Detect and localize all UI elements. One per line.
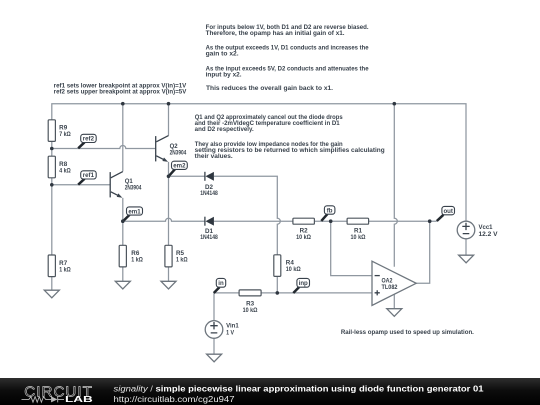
node: rail / Q2 collector xyxy=(167,102,171,106)
wire: ref1 net (R8 bottom to Q1 base and down to R7) xyxy=(52,178,110,255)
svg-text:Vcc1: Vcc1 xyxy=(479,225,494,231)
resistor R9 xyxy=(48,120,71,142)
annotation: reduces overall gain note xyxy=(206,86,333,92)
svg-text:2N3904: 2N3904 xyxy=(170,150,187,156)
svg-text:2N3904: 2N3904 xyxy=(125,185,142,191)
svg-text:7 kΩ: 7 kΩ xyxy=(59,132,71,138)
resistor R1 xyxy=(347,218,369,241)
svg-text:ref1: ref1 xyxy=(83,172,95,179)
wire: R4 bottom to inp net xyxy=(276,276,278,293)
wire: D2 anode to R4 (vertical hop over em1 wire) xyxy=(214,176,280,255)
wire: op-amp V+ supply from top rail (hop over out wire) xyxy=(394,104,397,267)
wire: ref2 net (R9-R8 junction to Q2 base, hop over Q1 collector) xyxy=(52,141,156,156)
svg-text:Q1 and Q2 approximately cancel: Q1 and Q2 approximately cancel out the d… xyxy=(195,115,344,121)
node ref2 flag xyxy=(78,134,96,148)
svg-text:setting resistors to be return: setting resistors to be returned to whic… xyxy=(195,148,385,154)
svg-text:gain to x2.: gain to x2. xyxy=(206,51,239,57)
wire: R6 ground stem xyxy=(122,267,124,281)
node inp flag xyxy=(293,278,309,293)
svg-text:ref2 sets upper breakpoint at: ref2 sets upper breakpoint at approx V(i… xyxy=(54,90,187,96)
wire: R2 to R1 through fb xyxy=(314,220,347,222)
node out flag xyxy=(437,206,455,221)
svg-text:signality / simple piecewise l: signality / simple piecewise linear appr… xyxy=(114,385,485,394)
svg-text:1 V: 1 V xyxy=(226,331,234,337)
svg-text:1 kΩ: 1 kΩ xyxy=(131,257,143,263)
svg-text:10 kΩ: 10 kΩ xyxy=(351,235,366,241)
node: out junction xyxy=(428,219,432,223)
svg-text:in: in xyxy=(218,280,224,287)
svg-text:D1: D1 xyxy=(205,229,214,235)
svg-text:out: out xyxy=(443,208,452,215)
svg-text:fb: fb xyxy=(327,207,333,214)
svg-text:1 kΩ: 1 kΩ xyxy=(59,268,71,274)
svg-text:R2: R2 xyxy=(300,229,309,235)
svg-text:http://circuitlab.com/cg2u947: http://circuitlab.com/cg2u947 xyxy=(114,395,235,404)
ground (R7) xyxy=(44,290,59,298)
wire: em2 down to R5 xyxy=(168,176,170,245)
svg-text:Q2: Q2 xyxy=(170,144,179,150)
svg-text:R9: R9 xyxy=(59,126,68,132)
svg-text:OA2: OA2 xyxy=(382,278,394,284)
resistor R3 xyxy=(239,290,261,314)
svg-text:Therefore, the opamp has an in: Therefore, the opamp has an initial gain… xyxy=(206,31,345,37)
resistor R7 xyxy=(48,255,71,277)
wire: D1 anode to R2 xyxy=(214,220,293,222)
annotation: output exceeds 1V note xyxy=(206,45,370,57)
svg-text:As the output exceeds 1V, D1 c: As the output exceeds 1V, D1 conducts an… xyxy=(206,45,370,51)
op-amp OA2 xyxy=(372,261,416,305)
node: em2 junction xyxy=(167,175,171,179)
wire: fb net down to op-amp inverting input xyxy=(331,221,372,275)
ground (op-amp V-) xyxy=(387,309,402,317)
node: rail / Q1 collector xyxy=(121,102,125,106)
wire: op-amp output to out node xyxy=(416,221,430,283)
svg-text:ref2: ref2 xyxy=(83,136,95,143)
svg-text:R4: R4 xyxy=(286,261,295,267)
CircuitLab logo squiggle resistor+diode xyxy=(22,396,65,402)
footer bar xyxy=(0,378,540,405)
svg-text:4 kΩ: 4 kΩ xyxy=(59,169,71,175)
resistor R5 xyxy=(165,245,188,267)
wire: R7 ground stem xyxy=(51,277,53,291)
svg-text:their values.: their values. xyxy=(195,154,233,160)
node fb flag xyxy=(321,206,335,221)
svg-text:em1: em1 xyxy=(128,208,141,215)
svg-text:1N4148: 1N4148 xyxy=(200,235,218,241)
svg-text:They also provide low impedanc: They also provide low impedance nodes fo… xyxy=(195,142,343,148)
svg-text:and their -2mVIdegC temperatur: and their -2mVIdegC temperature coeffici… xyxy=(195,121,341,127)
resistor R8 xyxy=(48,156,71,178)
svg-text:12.2 V: 12.2 V xyxy=(479,232,498,238)
node: fb junction xyxy=(329,219,333,223)
voltage source Vin1 xyxy=(205,321,239,339)
transistor Q1 xyxy=(110,172,142,198)
svg-text:Rail-less opamp used to speed: Rail-less opamp used to speed up simulat… xyxy=(341,330,474,336)
annotation: ref1/ref2 breakpoints note xyxy=(54,84,187,96)
wire: em1 net to R6 and to D1 (hop over R5 branch) xyxy=(123,218,205,245)
svg-text:As the input exceeds 5V, D2 co: As the input exceeds 5V, D2 conducts and… xyxy=(206,66,370,72)
diode D1 xyxy=(200,217,218,242)
wire: Q1 emitter down to em1 xyxy=(122,198,124,221)
svg-text:input by x2.: input by x2. xyxy=(206,72,242,78)
annotation: rail-less opamp note xyxy=(341,330,474,336)
annotation: low impedance nodes note xyxy=(195,142,385,160)
node: ref1 junction xyxy=(50,183,54,187)
ground (Vin1) xyxy=(207,354,222,362)
svg-text:Q1: Q1 xyxy=(125,179,134,185)
diode D2 xyxy=(200,172,218,197)
node: inp junction xyxy=(276,291,280,295)
svg-text:D2: D2 xyxy=(205,185,214,191)
svg-text:and D2 respectively.: and D2 respectively. xyxy=(195,127,254,133)
svg-text:TL082: TL082 xyxy=(382,285,399,291)
voltage source Vcc1 xyxy=(457,221,497,239)
annotation: Q1 Q2 cancel diode drops note xyxy=(195,115,344,133)
svg-text:R5: R5 xyxy=(176,251,185,257)
ground (Vcc1) xyxy=(459,255,474,263)
svg-text:R7: R7 xyxy=(59,261,68,267)
svg-text:10 kΩ: 10 kΩ xyxy=(286,267,301,273)
svg-text:For inputs below 1V, both D1 a: For inputs below 1V, both D1 and D2 are … xyxy=(206,25,369,31)
wire: Q1 collector to top rail xyxy=(122,104,124,172)
annotation: for inputs below 1V note xyxy=(206,25,369,37)
wire: R1 to out node xyxy=(369,220,437,222)
wire: Q2 emitter down to em2 xyxy=(168,162,170,176)
svg-text:10 kΩ: 10 kΩ xyxy=(296,235,311,241)
svg-text:This reduces the overall gain: This reduces the overall gain back to x1… xyxy=(206,86,333,92)
svg-text:Vin1: Vin1 xyxy=(226,323,239,329)
ground (R5) xyxy=(161,281,176,289)
node: ref2 junction xyxy=(50,147,54,151)
wire: Vin1 ground stem xyxy=(213,338,215,354)
annotation: input exceeds 5V note xyxy=(206,66,370,78)
wire: em2 to D2 xyxy=(169,175,205,177)
wire: Vcc top rail xyxy=(52,104,466,222)
svg-text:1N4148: 1N4148 xyxy=(200,191,218,197)
wire: in net Vin1 to R3 and R3 to op-amp non-inverting input xyxy=(214,293,372,321)
wire: Q2 collector to top rail xyxy=(168,104,170,136)
transistor Q2 xyxy=(156,136,187,162)
svg-text:R3: R3 xyxy=(246,301,255,307)
svg-text:em2: em2 xyxy=(173,163,186,170)
resistor R4 xyxy=(274,255,301,277)
svg-text:R1: R1 xyxy=(354,229,363,235)
wire: Vcc1 ground stem xyxy=(465,239,467,255)
svg-text:inp: inp xyxy=(299,280,308,287)
svg-text:R8: R8 xyxy=(59,162,68,168)
ground (R6) xyxy=(115,281,130,289)
svg-text:10 kΩ: 10 kΩ xyxy=(243,308,258,314)
node: em1 junction xyxy=(121,219,125,223)
resistor R6 xyxy=(119,245,143,267)
wire: op-amp V- supply stub to ground xyxy=(393,295,395,309)
resistor R2 xyxy=(293,218,315,241)
svg-text:LAB: LAB xyxy=(65,395,93,404)
node in flag xyxy=(214,278,226,293)
node em1 flag xyxy=(123,207,142,221)
svg-text:R6: R6 xyxy=(131,251,140,257)
node em2 flag xyxy=(169,161,188,176)
wire: R5 ground stem xyxy=(168,267,170,281)
node ref1 flag xyxy=(78,171,96,185)
svg-text:1 kΩ: 1 kΩ xyxy=(176,257,188,263)
node: rail / op-amp V+ xyxy=(393,102,397,106)
